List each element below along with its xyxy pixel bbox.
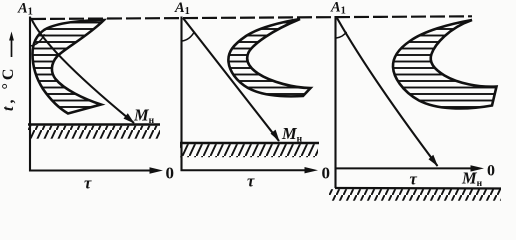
- top dashed line A1 temperature level (continuous across panels): [31, 16, 472, 19]
- svg-text:t, °C: t, °C: [0, 66, 17, 111]
- C-curve hatched crescent (panel 1): [33, 20, 105, 114]
- angle arc at A1 corner (panel 2): [182, 32, 195, 42]
- x-axis tau (panel 3): [335, 165, 485, 171]
- y-axis (panel 3): [334, 16, 336, 188]
- svg-text:A1: A1: [330, 0, 346, 17]
- y-axis (panel 1): [29, 17, 31, 172]
- cooling curve arrow v2 (panel 2): [183, 18, 280, 142]
- svg-text:τ: τ: [410, 170, 418, 189]
- svg-text:0: 0: [487, 163, 495, 180]
- angle arc at A1 corner (panel 1): [31, 34, 45, 46]
- svg-text:Мн: Мн: [133, 106, 155, 127]
- y-axis (panel 2): [180, 17, 182, 172]
- Mn level line below axis (panel 3): [335, 187, 501, 190]
- svg-text:Мн: Мн: [281, 124, 303, 145]
- Mn ground hatching (panel 3): [329, 189, 501, 201]
- Mn martensite line (panel 2): [180, 142, 319, 144]
- Mn martensite line (panel 1): [28, 123, 160, 125]
- Mn ground hatching (panel 2): [180, 144, 318, 157]
- C-curve hatched crescent (panel 2): [228, 19, 310, 96]
- svg-text:0: 0: [166, 164, 175, 183]
- angle arc at A1 corner (panel 3): [336, 32, 346, 38]
- svg-text:τ: τ: [247, 172, 255, 191]
- svg-text:Мн: Мн: [461, 169, 483, 190]
- svg-text:A1: A1: [17, 1, 33, 18]
- svg-text:τ: τ: [84, 174, 92, 193]
- C-curve hatched crescent (panel 3): [393, 20, 497, 108]
- Mn ground hatching (panel 1): [28, 126, 160, 139]
- y-axis label arrow (up): [9, 32, 14, 58]
- svg-text:A1: A1: [174, 0, 190, 17]
- cooling curve arrow v3 (panel 3): [337, 18, 438, 167]
- cooling curve arrow v1 (panel 1): [31, 18, 135, 124]
- x-axis tau (panel 2): [181, 167, 319, 173]
- svg-text:0: 0: [322, 164, 331, 183]
- x-axis tau (panel 1): [29, 167, 163, 173]
